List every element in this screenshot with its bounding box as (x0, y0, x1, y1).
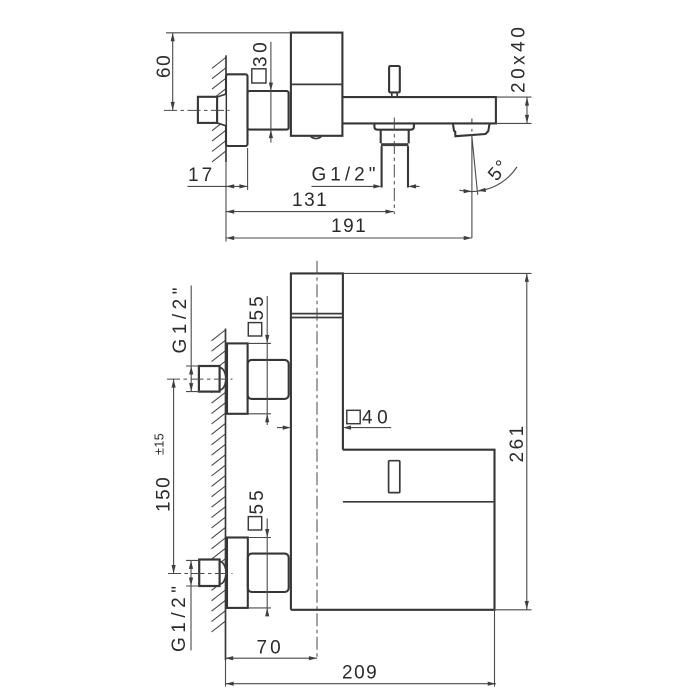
escutcheon square plate (side view, 30mm) (248, 91, 289, 130)
svg-text:30: 30 (251, 39, 272, 67)
mixer body front view (291, 273, 343, 609)
spout stub (5 deg) (453, 124, 490, 137)
svg-text:G1/2": G1/2" (169, 582, 190, 652)
spout 5 deg tilted line (472, 137, 478, 195)
inlet nut top collar arc (220, 368, 226, 390)
diverter knob stem (392, 92, 397, 97)
svg-text:209: 209 (342, 663, 378, 684)
5 deg dimension arc (459, 167, 517, 192)
diverter slot front (389, 461, 400, 493)
flange front extension line (247, 148, 249, 190)
dim 261 line with arrows (526, 273, 528, 609)
dim 55 bottom line with arrows (266, 519, 268, 616)
square symbol for 30 (252, 69, 266, 83)
dim 20x40 line with arrows (526, 97, 528, 123)
spout block mid line (343, 501, 495, 503)
svg-text:150: 150 (154, 476, 175, 512)
dim 40 underline with arrows (277, 427, 391, 429)
G1/2 bottom extension lines (186, 560, 200, 586)
dim 55 top line with arrows (266, 296, 268, 425)
svg-text:40: 40 (362, 408, 392, 429)
bottom view wall hatching (212, 330, 226, 632)
inlet connector block (side view) (217, 94, 226, 126)
svg-text:G1/2": G1/2" (312, 165, 380, 186)
dim 191 line with arrows (226, 237, 472, 239)
svg-text:G1/2": G1/2" (170, 283, 191, 353)
svg-text:5°: 5° (484, 155, 514, 185)
spout vertical reference line (471, 119, 473, 239)
top view wall line (225, 55, 227, 162)
bottom view wall line (225, 329, 227, 661)
body bottom tick marks (314, 136, 319, 139)
inlet centerline (164, 109, 230, 111)
shower pipe centerline (393, 118, 395, 215)
spout bar (20x40 section) (342, 97, 496, 123)
G1/2 leader underline with arrows (312, 185, 420, 187)
dim 55 top extension lines (248, 343, 271, 413)
mixer body (side view) (291, 33, 343, 136)
dim 60 extension lines (166, 32, 291, 34)
square symbol for 55 top (248, 323, 261, 336)
inlet nut top (220, 368, 226, 390)
diverter knob (389, 66, 400, 92)
union body top inlet (248, 360, 289, 399)
svg-text:261: 261 (507, 423, 528, 462)
svg-text:55: 55 (247, 487, 268, 514)
escutcheon plate top inlet (55mm) (227, 343, 248, 413)
dim 70 line with arrows (225, 657, 317, 659)
escutcheon plate bottom inlet (227, 538, 248, 608)
shower outlet neck (381, 130, 409, 144)
svg-text:131: 131 (292, 190, 328, 211)
dim 17 line with arrows (188, 185, 248, 187)
bottom view wall extension to 209 dim (225, 660, 227, 687)
svg-text:70: 70 (257, 638, 284, 659)
handle joint line (291, 83, 343, 85)
inlet connector flare cone (217, 94, 226, 126)
svg-text:60: 60 (154, 54, 175, 78)
dim 209 line with arrows (226, 683, 496, 685)
spout block front view (291, 450, 495, 610)
svg-text:55: 55 (247, 293, 268, 320)
dim 30 line with arrows (270, 42, 272, 143)
G1/2 bottom dim line with arrows (190, 560, 192, 650)
union body bottom inlet (248, 554, 289, 592)
spout block right extension to 209 (494, 610, 496, 687)
square symbol for 55 bottom (248, 517, 261, 530)
body centerline front (316, 261, 318, 661)
svg-text:20x40: 20x40 (509, 24, 530, 93)
bottom inlet centerline (168, 573, 233, 575)
dim 131 line with arrows (226, 211, 394, 213)
top view wall extension line down to dims (225, 162, 227, 242)
dim 55 bottom extension lines (248, 538, 271, 608)
dim 20x40 extension lines (496, 97, 532, 123)
G1/2 top dim line with arrows (190, 286, 192, 392)
shower outlet flange (374, 123, 414, 129)
square symbol for 40 (347, 410, 360, 423)
svg-text:17: 17 (188, 165, 215, 186)
top inlet centerline (167, 378, 233, 380)
dim 150 line with arrows (173, 379, 175, 573)
shower outlet pipe (382, 146, 408, 187)
inlet nut bottom collar arc (220, 561, 226, 584)
svg-text:±15: ±15 (153, 433, 167, 455)
G1/2 top extension lines (186, 366, 200, 392)
inlet nut bottom (220, 561, 226, 584)
svg-text:191: 191 (331, 216, 367, 237)
top view wall hatching (212, 58, 226, 162)
handle joint double line front (291, 314, 343, 318)
5 deg arc arrowheads (464, 189, 472, 193)
body bottom arc bump (311, 136, 322, 139)
dim 261 extension lines (343, 273, 532, 609)
shower outlet thread band (381, 143, 408, 146)
dim 60 line with arrows (172, 33, 174, 111)
wall flange (side view) (226, 74, 248, 146)
